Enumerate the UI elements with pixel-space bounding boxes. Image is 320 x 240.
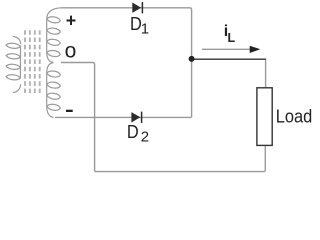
svg-text:D: D (127, 121, 139, 142)
svg-text:+: + (66, 10, 77, 30)
svg-text:1: 1 (141, 20, 149, 37)
svg-text:Load: Load (276, 106, 313, 127)
svg-text:L: L (228, 31, 236, 45)
svg-text:o: o (65, 40, 77, 63)
svg-text:2: 2 (141, 129, 149, 146)
